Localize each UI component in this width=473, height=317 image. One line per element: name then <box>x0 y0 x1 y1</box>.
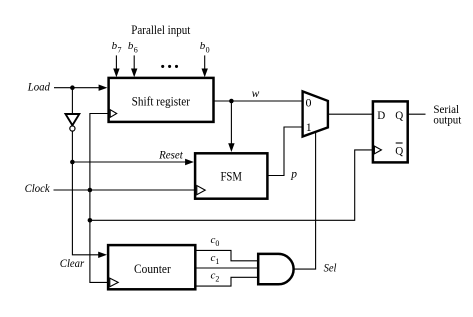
arrowhead Clear into counter <box>98 252 107 258</box>
svg-text:Counter: Counter <box>134 261 171 276</box>
wire inverter output down to Clear <box>72 131 99 255</box>
wire w from shift register to mux <box>214 100 303 102</box>
inverter bubble <box>70 126 75 131</box>
svg-text:Q: Q <box>395 143 403 157</box>
wire Clock <box>54 189 196 191</box>
inverter (NOT gate) <box>66 114 80 125</box>
wire p from FSM to mux <box>267 127 302 176</box>
wire Reset <box>72 161 186 163</box>
svg-text:output: output <box>433 113 462 127</box>
svg-text:Parallel input: Parallel input <box>131 22 190 37</box>
junction w <box>229 99 234 104</box>
arrowhead b7 <box>113 69 119 78</box>
wire b0 input <box>204 55 206 69</box>
wire w down to FSM <box>230 101 232 144</box>
svg-text:p: p <box>290 169 297 181</box>
wire Q output <box>408 113 426 115</box>
svg-text:0: 0 <box>215 239 219 248</box>
wire mux output to D <box>328 113 373 115</box>
wire Load <box>54 87 100 89</box>
shift register clock pin <box>110 110 117 118</box>
counter clock pin <box>110 278 118 287</box>
svg-text:Load: Load <box>27 81 50 93</box>
svg-text:7: 7 <box>118 45 122 54</box>
svg-text:1: 1 <box>215 257 219 266</box>
wire c2 <box>195 277 258 286</box>
svg-text:D: D <box>377 108 385 122</box>
AND gate <box>258 254 293 284</box>
wire c1 <box>195 267 258 269</box>
wire inverter stem <box>71 88 73 114</box>
wire b7 input <box>115 55 117 69</box>
wire clock vertical trunk <box>90 114 109 283</box>
svg-text:2: 2 <box>215 274 219 283</box>
arrowhead w into FSM <box>228 143 234 152</box>
svg-text:w: w <box>252 88 260 100</box>
arrowhead b6 <box>131 69 137 78</box>
svg-text:Clock: Clock <box>25 183 51 195</box>
svg-text:0: 0 <box>306 96 312 110</box>
svg-text:Clear: Clear <box>60 258 85 270</box>
svg-text:6: 6 <box>134 45 138 54</box>
svg-text:Shift register: Shift register <box>132 94 191 109</box>
multiplexer <box>303 91 328 136</box>
svg-text:Q: Q <box>395 108 403 122</box>
svg-text:Reset: Reset <box>158 150 183 162</box>
svg-text:Sel: Sel <box>324 262 337 274</box>
junction Clock/vertical <box>88 188 93 193</box>
arrowhead Reset <box>185 159 194 165</box>
junction Load/inverter <box>70 85 75 90</box>
wire Sel from AND to mux select <box>294 132 316 270</box>
arrowhead b0 <box>202 69 208 78</box>
Qbar overline <box>396 142 403 144</box>
svg-text:1: 1 <box>306 120 312 134</box>
junction Reset <box>70 160 75 165</box>
arrowhead Load <box>99 85 108 91</box>
flip-flop clock pin <box>374 146 381 154</box>
wire c0 <box>195 250 258 260</box>
svg-text:0: 0 <box>206 45 210 54</box>
wire b6 input <box>133 55 135 69</box>
FSM block <box>195 153 267 198</box>
wire clock to flip-flop <box>90 150 373 220</box>
D flip-flop block <box>373 101 408 162</box>
junction clock/flipflop branch <box>88 218 93 223</box>
counter block <box>108 245 195 289</box>
svg-text:FSM: FSM <box>220 168 242 183</box>
ellipsis dots between b6 and b0 <box>161 65 164 68</box>
FSM clock pin <box>197 186 205 195</box>
shift register block <box>109 78 214 122</box>
